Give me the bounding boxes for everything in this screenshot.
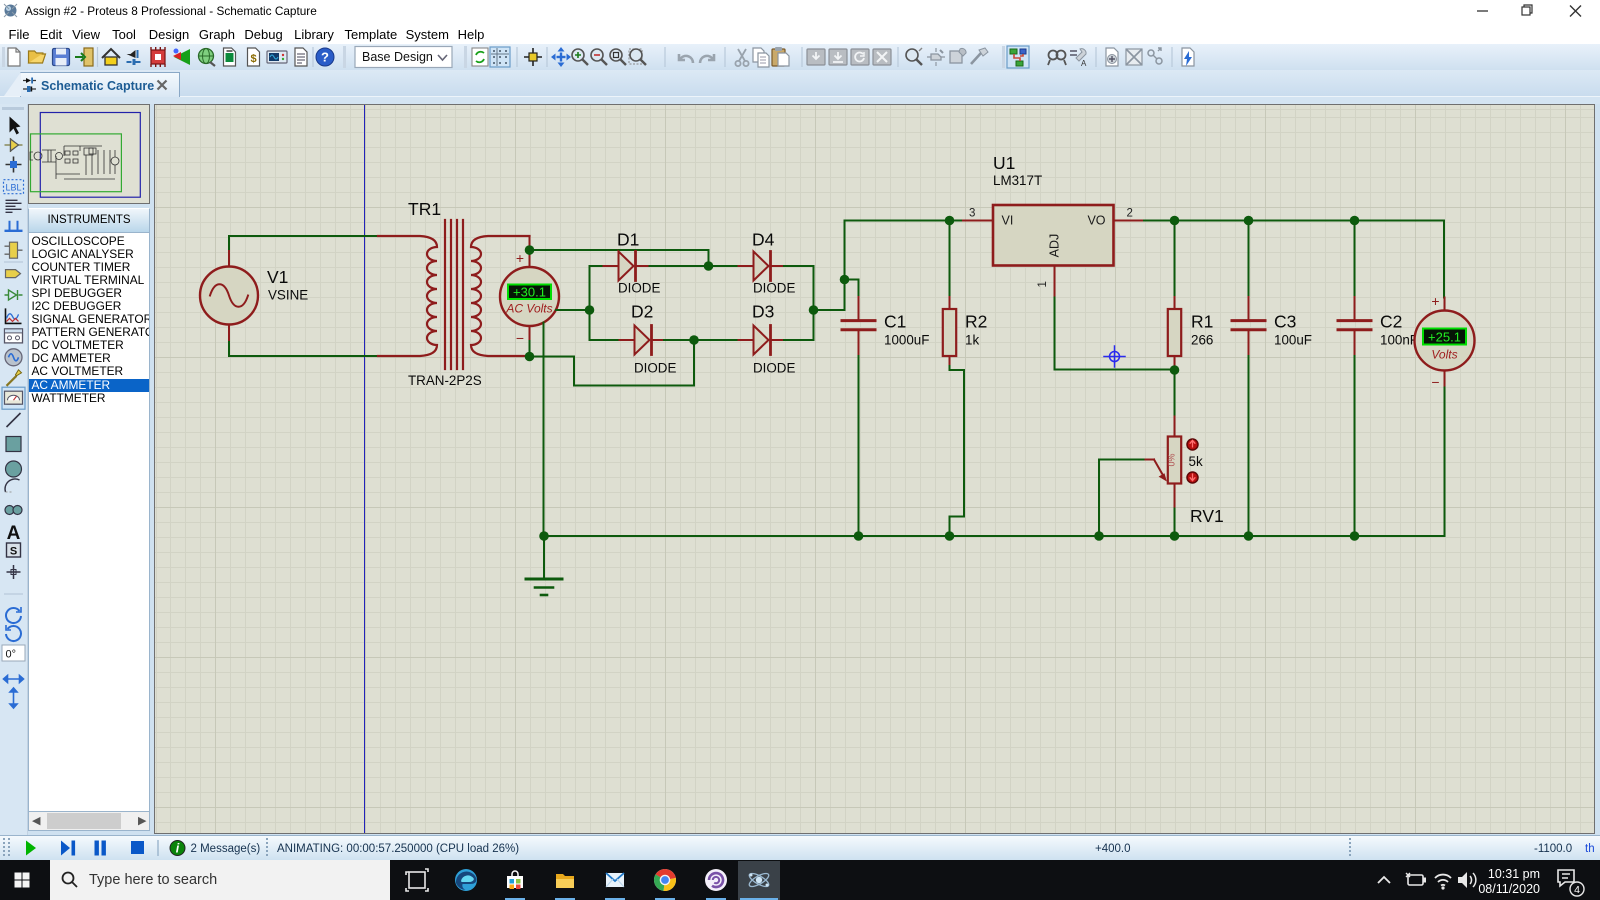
new sheet [1106, 48, 1118, 66]
device pin tool [5, 290, 23, 300]
wire: R2 bottom jog to ground bus [950, 366, 965, 536]
status bar [0, 835, 1600, 861]
redo [700, 54, 714, 63]
2d line tool [7, 413, 21, 427]
remove sheet [1126, 49, 1142, 65]
wire: to D2 anode [590, 339, 620, 341]
svg-text:$: $ [250, 53, 256, 65]
svg-text:C2: C2 [1380, 312, 1402, 332]
taskbar [0, 860, 1600, 900]
wire: D1 cathode to node D [650, 265, 709, 267]
wire: D4 cathode to right vertical [784, 266, 814, 340]
instruments panel [28, 208, 150, 233]
rotate ccw [6, 625, 21, 641]
wire: C3 bottom to ground bus [1248, 356, 1250, 536]
svg-text:08/11/2020: 08/11/2020 [1478, 882, 1540, 896]
node C junction on D1-D2 vertical [585, 305, 595, 315]
svg-text:−: − [1431, 374, 1439, 390]
copy [753, 48, 769, 67]
node B junction (secondary-) [525, 352, 535, 362]
wire: C1 bottom to ground bus [858, 356, 860, 536]
subcircuit tool [5, 242, 23, 258]
svg-text:VO: VO [1087, 214, 1105, 228]
transformer TR1 secondary winding [471, 236, 530, 356]
node K junction (C2 top) [1350, 216, 1360, 226]
wire: meter ground drop [543, 323, 545, 537]
wire: to D1 anode [590, 265, 604, 267]
node GND junction [539, 531, 549, 541]
goto sheet [1148, 48, 1162, 64]
node junction C1-gnd [854, 531, 864, 541]
gerber globe [199, 49, 216, 67]
svg-text:TRAN-2P2S: TRAN-2P2S [408, 373, 482, 388]
potentiometer RV1 [1144, 417, 1182, 509]
tab bar [0, 70, 1600, 96]
wire: C2 top from node K [1354, 221, 1356, 298]
svg-text:VSINE: VSINE [268, 288, 308, 303]
preview window [28, 104, 150, 204]
svg-text:VI: VI [1002, 214, 1014, 228]
bom [224, 48, 236, 66]
wire: node F to D3 anode [694, 339, 739, 341]
base design select [343, 46, 346, 68]
pin 1 stub of U1 (ADJ) [1054, 266, 1056, 298]
svg-text:+: + [516, 250, 524, 266]
wire: node A to bridge corner [530, 250, 709, 266]
diode D2 [620, 326, 665, 355]
bill [248, 48, 260, 66]
resistor R2 [943, 297, 956, 366]
title bar [0, 0, 1600, 22]
wire: secondary top corner down to node A [529, 236, 531, 248]
svg-text:R1: R1 [1191, 312, 1213, 332]
ground [526, 536, 562, 595]
capacitor C3 [1232, 297, 1265, 356]
svg-text:1: 1 [1037, 281, 1049, 287]
2d arc tool [5, 479, 19, 492]
svg-text:D1: D1 [617, 230, 639, 250]
wire: C2 bottom to ground bus [1354, 356, 1356, 536]
svg-text:?: ? [321, 50, 329, 65]
svg-text:U1: U1 [993, 153, 1015, 173]
resistor R1 [1168, 297, 1181, 370]
task view [406, 869, 428, 891]
store [507, 871, 523, 889]
block rotate [851, 49, 869, 65]
node A junction (secondary+, meter+) [525, 245, 535, 255]
svg-text:LBL: LBL [5, 183, 21, 193]
save [53, 49, 70, 66]
transformer TR1 core [445, 220, 463, 369]
open [29, 51, 46, 63]
node junction C2-gnd [1350, 531, 1360, 541]
svg-text:TR1: TR1 [408, 199, 441, 219]
wire: R1 top from node I [1174, 221, 1176, 298]
running underlines [505, 898, 778, 900]
capacitor C1 [842, 297, 875, 356]
svg-text:10:31 pm: 10:31 pm [1488, 867, 1540, 881]
block copy [807, 49, 825, 65]
svg-text:R2: R2 [965, 312, 987, 332]
2d path tool [5, 506, 22, 515]
svg-text:0%: 0% [1167, 453, 1177, 466]
origin [524, 48, 542, 66]
svg-text:DIODE: DIODE [618, 281, 660, 296]
block move [829, 49, 847, 65]
flip horizontal [4, 676, 24, 683]
help [316, 48, 334, 66]
svg-text:DIODE: DIODE [753, 361, 795, 376]
wire: V1 top to transformer primary (net V1+) [229, 236, 378, 251]
node junction wiper-gnd [1094, 531, 1104, 541]
wire: voltmeter bottom to ground bus [1444, 388, 1446, 537]
svg-text:0°: 0° [6, 649, 17, 661]
svg-text:100nF: 100nF [1380, 333, 1418, 348]
diode D3 [739, 326, 785, 355]
zoom all [629, 49, 646, 65]
generator V1 VSINE [200, 251, 258, 340]
terminal tool [6, 270, 21, 278]
svg-text:1000uF: 1000uF [884, 333, 929, 348]
menu bar [0, 22, 1600, 44]
svg-text:+25.1: +25.1 [1428, 330, 1461, 345]
bus tool [5, 221, 23, 231]
wire: output bus corner down to voltmeter [1443, 221, 1445, 298]
edge [455, 869, 477, 891]
voltmeter M1 AC Volts [500, 250, 559, 346]
wire: ground bus [544, 535, 1445, 537]
rotate cw [6, 607, 21, 623]
svg-text:+: + [1431, 293, 1439, 309]
active proteus window [738, 861, 780, 900]
mail [606, 873, 624, 887]
toolbar [0, 44, 1600, 70]
new [8, 48, 20, 66]
chrome [654, 869, 676, 891]
2d symbol tool [7, 543, 21, 558]
svg-text:A: A [7, 523, 21, 544]
wire: vertical D1 anode to D2 anode [589, 266, 591, 340]
node J junction (C3 top) [1244, 216, 1254, 226]
bittorrent [705, 869, 727, 891]
wire: node D to D4 anode [709, 265, 739, 267]
node junction R2-gnd [945, 531, 955, 541]
wire autorouter selected [1007, 46, 1029, 68]
node L junction (R1 bottom / RV1 top / ADJ) [1170, 365, 1180, 375]
2d box tool [6, 437, 21, 452]
import [75, 48, 93, 66]
schematic icon [127, 50, 141, 65]
diode D1 [604, 252, 650, 281]
cut [735, 49, 748, 66]
wire: VO to output bus [1144, 220, 1444, 222]
svg-text:A: A [1081, 59, 1087, 68]
2d circle tool [6, 461, 22, 477]
home [102, 49, 120, 65]
svg-text:V1: V1 [267, 267, 288, 287]
svg-text:+30.1: +30.1 [513, 285, 546, 300]
wire: top bus from C1 riser to U1 [845, 220, 964, 222]
wire label tool [4, 180, 24, 194]
svg-text:D4: D4 [752, 230, 775, 250]
wire: node B bracket to node F [530, 340, 695, 386]
block delete [873, 49, 891, 65]
svg-text:DIODE: DIODE [634, 361, 676, 376]
3d view [173, 49, 190, 66]
paste [772, 47, 789, 66]
svg-text:LM317T: LM317T [993, 173, 1042, 188]
zoom out [591, 49, 607, 65]
node H junction (VI node / R2 top) [945, 216, 955, 226]
svg-text:4: 4 [1574, 884, 1580, 896]
instrument tool selected [2, 387, 25, 409]
svg-text:100uF: 100uF [1274, 333, 1312, 348]
svg-text:2: 2 [1127, 208, 1133, 220]
oscillo strip [267, 51, 287, 63]
node junction RV1-gnd [1170, 531, 1180, 541]
electrical check [1182, 48, 1194, 66]
node G junction (C1 top tee) [840, 275, 850, 285]
wire: RV1 wiper to ground bus [1099, 460, 1144, 537]
2d marker tool [7, 565, 21, 579]
svg-text:RV1: RV1 [1190, 506, 1224, 526]
decompose [971, 48, 988, 64]
selection arrow tool [10, 117, 21, 135]
node E junction (bridge + output) [809, 305, 819, 315]
wire: D2 cathode to node F [664, 339, 694, 341]
undo [679, 54, 693, 63]
svg-text:3: 3 [969, 208, 975, 220]
wire: meter right to bridge mid node [556, 309, 590, 311]
handle [2, 47, 5, 67]
wire: D3 cathode to right vertical [784, 339, 814, 341]
svg-text:Volts: Volts [1431, 348, 1457, 362]
pan [551, 47, 571, 67]
2d text tool [7, 523, 21, 544]
svg-text:1k: 1k [965, 333, 979, 348]
zoom mid [610, 49, 626, 65]
cursor crosshair [1104, 346, 1125, 367]
node F junction (D2 cathode / D3 anode) [689, 335, 699, 345]
packaging [950, 48, 966, 63]
folder [556, 874, 574, 888]
voltmeter M2 DC Volts [1415, 293, 1475, 390]
svg-text:−: − [516, 330, 524, 346]
search [1048, 51, 1066, 66]
capacitor C2 [1338, 297, 1371, 356]
wire: meter- down to node B [529, 341, 531, 357]
grid toggle selected [490, 47, 510, 67]
pick parts [906, 48, 922, 65]
pcb chip [151, 47, 165, 67]
refresh [472, 48, 488, 66]
wire: RV1 bottom to ground bus [1174, 509, 1176, 537]
flip vertical [10, 688, 17, 708]
pin 3 stub of U1 [963, 220, 993, 222]
RV1 up button [1187, 439, 1198, 450]
pin 2 stub of U1 [1114, 220, 1145, 222]
node D junction (D1 cathode / D4 anode) [704, 261, 714, 271]
svg-text:DIODE: DIODE [753, 281, 795, 296]
text script tool [6, 200, 22, 212]
node I junction (R1 top) [1170, 216, 1180, 226]
voltage probe tool [7, 370, 22, 386]
RV1 down button [1187, 472, 1198, 483]
angle box [2, 645, 25, 661]
svg-text:266: 266 [1191, 333, 1213, 348]
svg-text:D3: D3 [752, 302, 774, 322]
junction dot tool [6, 157, 22, 173]
wire: V1 bottom to transformer primary (net V1-) [229, 340, 378, 356]
tape recorder tool [5, 329, 23, 343]
svg-text:C1: C1 [884, 312, 906, 332]
svg-text:ADJ: ADJ [1048, 234, 1062, 258]
report [295, 48, 307, 66]
property assign [1070, 49, 1087, 68]
make device [927, 48, 945, 66]
generator tool [5, 349, 22, 366]
wire: node G jog to C1 [845, 280, 859, 298]
diode D4 [739, 252, 785, 281]
canvas [154, 104, 1595, 834]
svg-text:C3: C3 [1274, 312, 1296, 332]
wire: C3 top from node J [1248, 221, 1250, 298]
wire: node L down to RV1 [1174, 370, 1176, 417]
node junction C3-gnd [1244, 531, 1254, 541]
svg-text:D2: D2 [631, 302, 653, 322]
svg-text:5k: 5k [1189, 454, 1203, 469]
graph tool [6, 308, 22, 323]
svg-text:S: S [10, 546, 17, 558]
svg-text:AC Volts: AC Volts [505, 302, 552, 316]
svg-text:i: i [176, 841, 180, 855]
wire: ADJ down and right to node L [1055, 298, 1175, 370]
transformer TR1 primary winding [378, 236, 437, 356]
regulator U1 LM317T body [993, 205, 1114, 266]
zoom in [572, 49, 588, 65]
component tool [5, 138, 23, 152]
svg-text:Base Design: Base Design [362, 50, 433, 64]
wire: R2 top from node H [949, 221, 951, 298]
wire: node E to C1 riser [814, 221, 845, 311]
